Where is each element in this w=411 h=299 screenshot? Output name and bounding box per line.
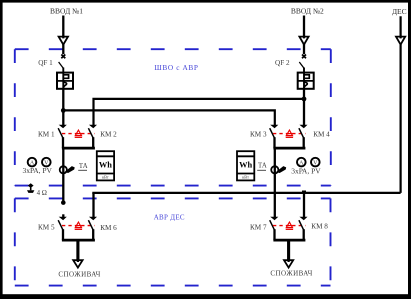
- wire crossfeed upper (QF2 to KM2): [94, 99, 305, 127]
- bus section 2: [273, 147, 305, 150]
- circuit breaker QF2: [298, 55, 314, 90]
- svg-text:КМ 8: КМ 8: [311, 222, 328, 230]
- contactor KM3: [270, 125, 279, 148]
- contactor KM1: [58, 125, 67, 148]
- bus section 1: [62, 147, 95, 150]
- label TA right: [257, 162, 267, 170]
- ammeter P2A: [297, 158, 306, 167]
- wire DES horizontal distribution: [92, 192, 400, 194]
- bus section 3: [62, 239, 95, 242]
- svg-text:4 Ω: 4 Ω: [37, 190, 47, 197]
- consumer arrow right: [284, 259, 293, 267]
- svg-text:Wh: Wh: [239, 160, 252, 169]
- wire input 1 vertical: [62, 16, 64, 55]
- svg-text:КМ 6: КМ 6: [100, 224, 117, 232]
- circuit breaker QF1: [57, 55, 73, 90]
- svg-text:кВт: кВт: [102, 175, 109, 180]
- wire to consumer left: [76, 240, 79, 266]
- current transformer TA2: [271, 166, 286, 173]
- wire bus2 down to KM7: [274, 148, 276, 218]
- wire DES to KM8 + node: [302, 191, 306, 218]
- contactor KM8: [299, 217, 308, 240]
- svg-text:СПОЖИВАЧ: СПОЖИВАЧ: [58, 271, 100, 279]
- bus section 4: [273, 239, 305, 242]
- contactor KM6: [88, 217, 97, 240]
- node junction QF2 output: [302, 97, 307, 102]
- svg-text:КМ 7: КМ 7: [250, 223, 267, 231]
- input arrow 2: [299, 36, 308, 45]
- svg-text:3хРА, PV: 3хРА, PV: [23, 166, 53, 175]
- svg-text:ВВОД №1: ВВОД №1: [50, 6, 83, 15]
- kWh meter left: [97, 151, 114, 180]
- svg-text:QF 2: QF 2: [275, 59, 290, 67]
- svg-text:ДЕС: ДЕС: [392, 7, 407, 16]
- svg-text:ТА: ТА: [258, 162, 267, 169]
- svg-text:QF 1: QF 1: [38, 59, 53, 67]
- cabinet enclosure AVR DES (dashed): [15, 198, 331, 285]
- voltmeter P1V: [42, 158, 51, 167]
- interlock KM3-KM4: [273, 130, 305, 137]
- contactor KM7: [270, 217, 279, 240]
- svg-text:ВВОД №2: ВВОД №2: [291, 6, 324, 15]
- svg-text:ТА: ТА: [79, 163, 88, 170]
- wire crossfeed lower (QF1 to KM3): [63, 110, 274, 126]
- svg-text:СПОЖИВАЧ: СПОЖИВАЧ: [270, 270, 312, 278]
- svg-text:3хРА, PV: 3хРА, PV: [291, 166, 321, 175]
- svg-text:АВР ДЕС: АВР ДЕС: [154, 214, 185, 222]
- svg-text:КМ 4: КМ 4: [313, 131, 330, 139]
- terminal dot left feeder: [61, 200, 66, 205]
- label TA left: [78, 163, 88, 170]
- interlock KM1-KM2: [62, 130, 94, 137]
- current transformer TA1: [60, 166, 75, 173]
- interlock KM5-KM6: [62, 222, 94, 229]
- cabinet enclosure ShVO s AVR (dashed): [15, 49, 331, 185]
- wire to consumer right: [287, 240, 290, 266]
- DES arrow: [396, 36, 405, 45]
- svg-text:ШВО с АВР: ШВО с АВР: [154, 63, 198, 72]
- wire DES to KM6: [92, 193, 94, 219]
- wire bus1 down to terminal: [62, 148, 64, 202]
- wire stub above KM5: [62, 214, 64, 217]
- wire DES vertical: [400, 16, 402, 193]
- ammeter P1A: [28, 158, 37, 167]
- svg-text:КМ 1: КМ 1: [38, 131, 55, 139]
- wire QF1 to node: [62, 89, 64, 127]
- svg-text:КМ 2: КМ 2: [100, 131, 117, 139]
- wire input 2 vertical: [303, 16, 305, 55]
- svg-text:кВт: кВт: [242, 175, 249, 180]
- svg-text:КМ 5: КМ 5: [38, 223, 55, 231]
- node junction QF1 output: [61, 108, 66, 113]
- contactor KM4: [299, 125, 308, 148]
- svg-text:КМ 3: КМ 3: [250, 131, 267, 139]
- contactor KM5: [58, 217, 67, 240]
- contactor KM2: [88, 125, 97, 148]
- earth electrode 4 Ohm: [27, 183, 34, 193]
- kWh meter right: [237, 151, 254, 180]
- svg-text:Wh: Wh: [99, 160, 112, 169]
- wire QF2 to node: [303, 89, 305, 127]
- interlock KM7-KM8: [273, 222, 305, 229]
- consumer arrow left: [73, 259, 82, 267]
- input arrow 1: [59, 36, 68, 45]
- voltmeter P2V: [311, 158, 320, 167]
